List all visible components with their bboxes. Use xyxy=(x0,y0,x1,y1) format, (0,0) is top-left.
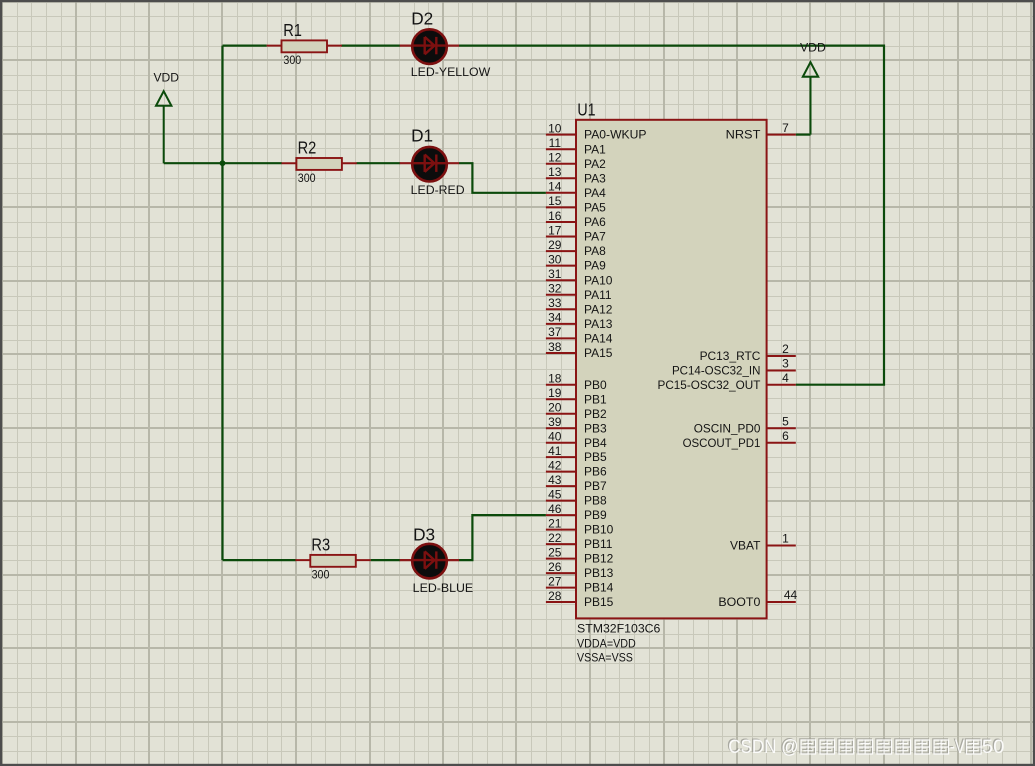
pin 16 (PA6) stub xyxy=(546,221,576,223)
svg-text:17: 17 xyxy=(548,223,562,237)
svg-text:PA3: PA3 xyxy=(584,171,606,185)
svg-text:VDD: VDD xyxy=(154,70,180,84)
svg-text:PC15-OSC32_OUT: PC15-OSC32_OUT xyxy=(658,378,762,392)
svg-text:32: 32 xyxy=(548,282,562,296)
svg-text:PA12: PA12 xyxy=(584,302,613,316)
pin 14 (PA4) stub xyxy=(546,192,576,194)
pin 28 (PB15) stub xyxy=(546,601,576,603)
svg-text:PB0: PB0 xyxy=(584,378,607,392)
pin 39 (PB3) stub xyxy=(546,427,576,429)
svg-text:16: 16 xyxy=(548,209,562,223)
svg-text:31: 31 xyxy=(548,267,562,281)
wire: D2 to pin 4 PC15-OSC32_OUT xyxy=(459,46,884,385)
svg-text:4: 4 xyxy=(782,371,789,385)
svg-text:34: 34 xyxy=(548,311,562,325)
svg-text:37: 37 xyxy=(548,325,562,339)
svg-text:2: 2 xyxy=(782,342,789,356)
svg-text:PB4: PB4 xyxy=(584,436,607,450)
LED D1 diode symbol xyxy=(414,155,446,172)
pin 11 (PA1) stub xyxy=(546,148,576,150)
svg-text:PA15: PA15 xyxy=(584,346,613,360)
pin 20 (PB2) stub xyxy=(546,413,576,415)
pin 7 (NRST) stub xyxy=(767,134,796,136)
power symbol VDD (left) xyxy=(156,91,171,163)
node: wire junction xyxy=(220,160,226,166)
svg-text:PB13: PB13 xyxy=(584,566,614,580)
svg-text:PA14: PA14 xyxy=(584,332,613,346)
svg-text:LED-RED: LED-RED xyxy=(411,183,465,197)
wire: VDD left to junction xyxy=(164,162,223,164)
pin 33 (PA12) stub xyxy=(546,308,576,310)
pin 18 (PB0) stub xyxy=(546,384,576,386)
pin 12 (PA2) stub xyxy=(546,163,576,165)
resistor R3 leads xyxy=(295,559,370,561)
svg-text:VBAT: VBAT xyxy=(730,539,761,553)
pin 41 (PB5) stub xyxy=(546,456,576,458)
svg-text:PB11: PB11 xyxy=(584,537,613,551)
LED D2 diode symbol xyxy=(414,37,446,54)
pin 5 (OSCIN_PD0) stub xyxy=(767,427,796,429)
svg-text:PA0-WKUP: PA0-WKUP xyxy=(584,128,647,142)
wire: vertical bus R1-row to R3-row xyxy=(221,46,223,561)
svg-text:21: 21 xyxy=(548,516,562,530)
svg-text:28: 28 xyxy=(548,589,562,603)
LED D2 leads xyxy=(400,44,459,46)
pin 13 (PA3) stub xyxy=(546,177,576,179)
svg-text:3: 3 xyxy=(782,357,789,371)
wire: R1 to D2 xyxy=(341,44,400,46)
svg-text:PA2: PA2 xyxy=(584,157,606,171)
LED D1 body circle xyxy=(412,147,447,182)
pin 29 (PA8) stub xyxy=(546,250,576,252)
LED D3 leads xyxy=(400,559,459,561)
svg-text:39: 39 xyxy=(548,415,562,429)
svg-text:7: 7 xyxy=(782,121,789,135)
svg-text:30: 30 xyxy=(548,252,562,266)
svg-text:U1: U1 xyxy=(577,99,595,119)
resistor R1 body xyxy=(282,40,328,52)
svg-text:300: 300 xyxy=(312,568,330,582)
svg-text:PA4: PA4 xyxy=(584,186,606,200)
pin 37 (PA14) stub xyxy=(546,337,576,339)
resistor R1 leads xyxy=(267,45,342,47)
wire: R2 to D1 xyxy=(357,162,401,164)
svg-text:BOOT0: BOOT0 xyxy=(718,595,760,609)
svg-text:PA13: PA13 xyxy=(584,317,613,331)
svg-text:PB12: PB12 xyxy=(584,552,614,566)
wire: R3 to D3 xyxy=(371,559,401,561)
svg-text:PB14: PB14 xyxy=(584,581,614,595)
svg-text:PA8: PA8 xyxy=(584,244,606,258)
svg-text:R3: R3 xyxy=(311,535,330,555)
svg-text:26: 26 xyxy=(548,560,562,574)
svg-text:PA10: PA10 xyxy=(584,273,613,287)
svg-text:CSDN @: CSDN @ xyxy=(728,737,798,758)
svg-text:-V: -V xyxy=(950,737,966,758)
svg-text:29: 29 xyxy=(548,238,562,252)
svg-text:12: 12 xyxy=(548,151,562,165)
power symbol VDD (right) xyxy=(803,62,818,134)
pin 22 (PB11) stub xyxy=(546,543,576,545)
svg-text:PB3: PB3 xyxy=(584,421,607,435)
svg-text:LED-BLUE: LED-BLUE xyxy=(413,581,474,595)
svg-text:PA6: PA6 xyxy=(584,215,606,229)
svg-text:PB1: PB1 xyxy=(584,392,607,406)
svg-text:6: 6 xyxy=(782,429,789,443)
svg-text:300: 300 xyxy=(298,171,316,185)
pin 31 (PA10) stub xyxy=(546,279,576,281)
pin 27 (PB14) stub xyxy=(546,587,576,589)
wire: pin 7 NRST to VDD right xyxy=(796,134,811,136)
pin 45 (PB8) stub xyxy=(546,500,576,502)
pin 26 (PB13) stub xyxy=(546,572,576,574)
LED D3 body circle xyxy=(412,544,447,579)
svg-text:LED-YELLOW: LED-YELLOW xyxy=(411,65,491,79)
svg-text:VSSA=VSS: VSSA=VSS xyxy=(577,651,633,665)
svg-text:43: 43 xyxy=(548,473,562,487)
svg-text:OSCOUT_PD1: OSCOUT_PD1 xyxy=(683,436,761,450)
pin 15 (PA5) stub xyxy=(546,206,576,208)
wire: junction to R2 xyxy=(223,162,282,164)
svg-text:PB7: PB7 xyxy=(584,479,607,493)
svg-text:25: 25 xyxy=(548,545,562,559)
svg-text:D3: D3 xyxy=(413,524,435,544)
svg-text:44: 44 xyxy=(784,588,798,602)
svg-text:PB10: PB10 xyxy=(584,523,614,537)
svg-text:PB5: PB5 xyxy=(584,450,607,464)
pin 4 (PC15-OSC32_OUT) stub xyxy=(767,384,796,386)
svg-text:27: 27 xyxy=(548,574,562,588)
svg-text:19: 19 xyxy=(548,386,562,400)
pin 43 (PB7) stub xyxy=(546,485,576,487)
svg-text:VDDA=VDD: VDDA=VDD xyxy=(577,637,636,651)
pin 3 (PC14-OSC32_IN) stub xyxy=(767,370,796,372)
pin 17 (PA7) stub xyxy=(546,236,576,238)
svg-text:PA5: PA5 xyxy=(584,201,606,215)
svg-text:STM32F103C6: STM32F103C6 xyxy=(577,622,661,636)
resistor R2 body xyxy=(296,158,342,170)
svg-text:PB8: PB8 xyxy=(584,494,607,508)
svg-text:VDD: VDD xyxy=(800,41,826,55)
IC U1 STM32F103C6 body xyxy=(576,120,767,619)
svg-text:PA1: PA1 xyxy=(584,142,606,156)
resistor R3 body xyxy=(310,555,356,567)
svg-text:46: 46 xyxy=(548,502,562,516)
svg-text:PA11: PA11 xyxy=(584,288,612,302)
pin 34 (PA13) stub xyxy=(546,323,576,325)
pin 30 (PA9) stub xyxy=(546,265,576,267)
svg-text:PB9: PB9 xyxy=(584,508,607,522)
LED D2 body circle xyxy=(412,29,447,64)
svg-text:PB15: PB15 xyxy=(584,595,614,609)
wire: top row to R1 xyxy=(223,44,267,46)
LED D3 diode symbol xyxy=(414,551,446,568)
svg-text:13: 13 xyxy=(548,165,562,179)
svg-text:33: 33 xyxy=(548,296,562,310)
svg-text:42: 42 xyxy=(548,458,562,472)
pin 10 (PA0-WKUP) stub xyxy=(546,134,576,136)
svg-text:18: 18 xyxy=(548,372,562,386)
pin 6 (OSCOUT_PD1) stub xyxy=(767,442,796,444)
svg-text:10: 10 xyxy=(548,121,562,135)
svg-text:45: 45 xyxy=(548,487,562,501)
wire: D3 to pin 46 PB9 xyxy=(459,515,546,560)
wire: vertical bus to R3 xyxy=(223,559,296,561)
wire: D1 to pin 14 PA4 xyxy=(459,163,546,193)
pin 25 (PB12) stub xyxy=(546,558,576,560)
svg-text:PC14-OSC32_IN: PC14-OSC32_IN xyxy=(672,364,760,378)
svg-text:R1: R1 xyxy=(283,20,302,40)
svg-text:15: 15 xyxy=(548,194,562,208)
pin 21 (PB10) stub xyxy=(546,529,576,531)
pin 46 (PB9) stub xyxy=(546,514,576,516)
svg-text:22: 22 xyxy=(548,531,562,545)
svg-text:50: 50 xyxy=(982,737,1005,758)
svg-text:R2: R2 xyxy=(298,138,317,158)
svg-text:PB6: PB6 xyxy=(584,465,607,479)
pin 38 (PA15) stub xyxy=(546,352,576,354)
svg-text:OSCIN_PD0: OSCIN_PD0 xyxy=(694,421,761,435)
pin 42 (PB6) stub xyxy=(546,471,576,473)
svg-text:300: 300 xyxy=(283,53,301,67)
pin 40 (PB4) stub xyxy=(546,442,576,444)
svg-text:D2: D2 xyxy=(411,9,433,29)
pin 1 (VBAT) stub xyxy=(767,545,796,547)
svg-text:PA7: PA7 xyxy=(584,230,606,244)
svg-text:NRST: NRST xyxy=(726,128,762,142)
resistor R2 leads xyxy=(282,162,357,164)
svg-text:PB2: PB2 xyxy=(584,407,607,421)
LED D1 leads xyxy=(400,162,459,164)
pin 44 (BOOT0) stub xyxy=(767,601,796,603)
svg-text:40: 40 xyxy=(548,430,562,444)
svg-text:PC13_RTC: PC13_RTC xyxy=(700,349,761,363)
svg-text:PA9: PA9 xyxy=(584,259,606,273)
pin 2 (PC13_RTC) stub xyxy=(767,355,796,357)
svg-text:14: 14 xyxy=(548,180,562,194)
svg-text:20: 20 xyxy=(548,401,562,415)
svg-text:38: 38 xyxy=(548,340,562,354)
pin 19 (PB1) stub xyxy=(546,398,576,400)
svg-text:1: 1 xyxy=(782,532,789,546)
svg-text:D1: D1 xyxy=(411,126,433,146)
svg-text:41: 41 xyxy=(548,444,562,458)
svg-text:11: 11 xyxy=(549,136,562,150)
pin 32 (PA11) stub xyxy=(546,294,576,296)
svg-text:5: 5 xyxy=(782,414,789,428)
